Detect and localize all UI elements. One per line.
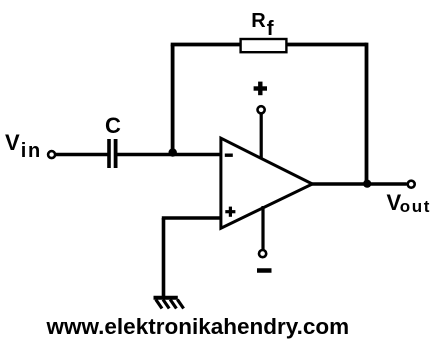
junction node on input wire bbox=[169, 148, 177, 156]
op-amp inverting input sign bbox=[225, 153, 233, 156]
resistor Rf bbox=[241, 39, 287, 52]
positive supply terminal circle bbox=[258, 106, 265, 113]
wire: input terminal to capacitor bbox=[56, 153, 108, 157]
node Vout label bbox=[387, 190, 432, 216]
input terminal circle bbox=[48, 151, 55, 158]
positive supply plus sign bbox=[254, 82, 267, 96]
output terminal circle bbox=[408, 181, 415, 188]
wire: non-inverting input horizontal bbox=[162, 216, 220, 220]
wire: feedback right vertical bbox=[365, 43, 369, 184]
output junction node bbox=[363, 180, 371, 188]
svg-text:f: f bbox=[267, 17, 274, 40]
ground bbox=[154, 298, 184, 309]
wire: non-inverting input down to ground bbox=[162, 218, 166, 297]
node Vin label bbox=[5, 130, 42, 162]
wire: op-amp output bbox=[312, 182, 407, 186]
op-amp non-inverting input sign bbox=[225, 207, 235, 217]
wire: capacitor to inverting input bbox=[117, 153, 220, 156]
capacitor C bbox=[109, 139, 116, 168]
svg-text:R: R bbox=[251, 10, 266, 32]
svg-text:in: in bbox=[21, 140, 42, 162]
op-amp U1 bbox=[221, 138, 313, 228]
svg-text:www.elektronikahendry.com: www.elektronikahendry.com bbox=[46, 314, 350, 339]
resistor Rf label bbox=[251, 10, 274, 40]
svg-text:V: V bbox=[5, 130, 20, 155]
wire: op-amp bottom to negative supply bbox=[261, 206, 264, 250]
wire: junction up to feedback bbox=[171, 45, 175, 154]
negative supply minus sign bbox=[257, 268, 272, 273]
svg-text:out: out bbox=[400, 197, 431, 216]
wire: top feedback horizontal bbox=[171, 43, 367, 47]
negative supply terminal circle bbox=[259, 250, 266, 257]
svg-text:C: C bbox=[105, 113, 121, 138]
wire: positive supply to op-amp top bbox=[260, 114, 263, 160]
